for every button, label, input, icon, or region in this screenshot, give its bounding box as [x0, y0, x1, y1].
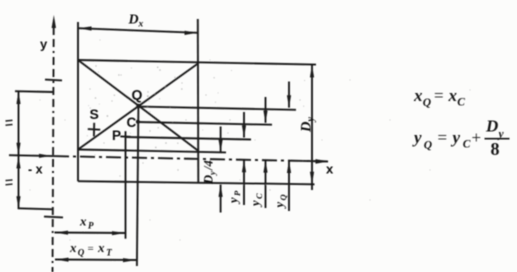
- label D_y rotated: [299, 117, 317, 134]
- svg-text:x: x: [448, 86, 458, 105]
- scan speckle noise: [30, 40, 471, 241]
- x_Q right arrowhead: [123, 258, 136, 262]
- arrowhead down at x-axis from above: [16, 143, 20, 156]
- svg-text:D: D: [202, 175, 216, 185]
- equal mark upper: [6, 120, 13, 125]
- svg-text:y: y: [273, 202, 287, 210]
- dimension y_C upper stem with down arrowhead: [263, 97, 267, 123]
- svg-text:P: P: [232, 190, 242, 196]
- svg-text:Q: Q: [278, 194, 288, 200]
- x-axis right arrowhead: [316, 159, 329, 164]
- svg-text:x: x: [138, 20, 144, 30]
- dimension line x_Q = x_T: [55, 259, 137, 262]
- svg-text:y: y: [227, 197, 241, 205]
- extension line from P to the right: [126, 137, 252, 140]
- D_y top arrowhead: [310, 65, 314, 78]
- label y_Q rotated: [273, 194, 289, 209]
- D_y bottom arrowhead: [310, 172, 314, 185]
- arrowhead up at x-axis from below: [16, 156, 20, 169]
- tick mark upper on y-axis: [45, 79, 62, 82]
- label y_P rotated: [227, 190, 243, 205]
- dimension line x_P: [55, 232, 127, 235]
- dimension y_Q lower stem with up arrowhead: [287, 161, 291, 212]
- svg-text:x: x: [97, 240, 105, 255]
- label x_Q = x_T: [69, 240, 112, 258]
- svg-text:C: C: [457, 97, 465, 109]
- upper hook line of equal-spacing dimension: [15, 90, 53, 93]
- arrowhead up at upper hook: [16, 92, 20, 105]
- tick mark lower on y-axis: [44, 216, 63, 219]
- equal mark lower: [6, 180, 13, 185]
- arrowhead down at lower hook: [16, 196, 20, 209]
- svg-text:=: =: [438, 128, 448, 147]
- y-axis dashed line: [53, 27, 54, 272]
- svg-text:/4: /4: [202, 160, 216, 171]
- dimension y_P upper stem with down arrowhead: [242, 112, 246, 138]
- point P cross marker horizontal: [120, 135, 130, 137]
- svg-text:C: C: [254, 193, 264, 199]
- vertical extension from P down to x_P dimension: [125, 131, 127, 239]
- point S cross marker: [88, 123, 100, 137]
- x-axis solid segment near right arrowhead: [303, 160, 328, 163]
- dimension D_y vertical line: [311, 65, 313, 190]
- svg-text:D: D: [485, 117, 498, 136]
- dimension D_y/4 upper stem with down arrowhead: [219, 127, 223, 153]
- svg-text:P: P: [88, 221, 94, 231]
- extension line from Q to the right: [139, 107, 296, 110]
- svg-text:C: C: [127, 115, 137, 130]
- svg-text:x: x: [69, 240, 77, 255]
- point C marker: [136, 120, 140, 124]
- svg-text:T: T: [106, 248, 112, 258]
- x-axis negative part (solid): [9, 154, 54, 157]
- dimension y_P lower stem with up arrowhead: [242, 160, 246, 205]
- extension line from C to the right: [138, 122, 272, 125]
- svg-text:D: D: [299, 121, 315, 133]
- x_Q left arrowhead: [56, 258, 69, 262]
- label y_C rotated: [249, 193, 265, 208]
- svg-text:y: y: [306, 117, 317, 123]
- label D_y/4 rotated: [202, 160, 218, 185]
- equation y_Q = y_C + D_y/8: [412, 117, 510, 160]
- lower hook line of equal-spacing dimension: [18, 208, 53, 209]
- dimension D_y/4 lower stem with up arrowhead: [219, 184, 223, 212]
- dimension y_C lower stem with up arrowhead: [263, 160, 267, 208]
- equation x_Q = x_C: [413, 86, 465, 109]
- svg-text:y: y: [249, 200, 263, 208]
- dimension line D_x: [78, 28, 198, 33]
- svg-text:y: y: [451, 128, 461, 147]
- x_P left arrowhead: [55, 231, 68, 235]
- svg-text:=: =: [434, 86, 444, 105]
- D_x left arrowhead: [79, 26, 92, 30]
- y-axis arrowhead: [52, 15, 56, 28]
- svg-text:y: y: [40, 37, 48, 52]
- svg-text:Q: Q: [132, 87, 143, 103]
- dimension y_Q upper stem with down arrowhead: [287, 82, 291, 108]
- svg-text:Q: Q: [423, 97, 431, 109]
- x-axis dash-dot centerline: [54, 156, 328, 161]
- rectangle outline bottom edge with extension to D_y dimension: [78, 181, 315, 184]
- svg-text:C: C: [463, 138, 471, 150]
- diagonal from top-right corner: [78, 64, 198, 150]
- D_x right arrowhead: [185, 31, 198, 35]
- svg-text:P: P: [112, 128, 121, 143]
- svg-text:8: 8: [491, 139, 500, 159]
- rectangle outline top edge with extension to D_y dimension: [78, 60, 316, 65]
- svg-text:x: x: [79, 214, 87, 229]
- left equal-spacing dimension line: [18, 92, 20, 210]
- svg-text:S: S: [90, 106, 99, 122]
- svg-text:x: x: [326, 162, 334, 177]
- rectangle outline right edge: [197, 19, 200, 183]
- svg-text:y: y: [207, 171, 217, 176]
- svg-text:y: y: [412, 128, 422, 147]
- point Q marker: [136, 104, 141, 109]
- vertical extension from Q and C down to x_Q dimension: [137, 106, 139, 266]
- x_P right arrowhead: [112, 231, 125, 235]
- svg-text:Q: Q: [78, 248, 85, 258]
- svg-text:D: D: [128, 13, 139, 28]
- svg-text:+: +: [472, 128, 482, 147]
- svg-text:=: =: [88, 243, 94, 255]
- svg-text:x: x: [413, 86, 423, 105]
- diagonal from top-left corner: [78, 60, 198, 151]
- svg-text:- x: - x: [28, 163, 43, 177]
- x-axis arrowhead near origin: [39, 154, 51, 158]
- horizontal line at bottom of diagonals with extension: [78, 150, 226, 153]
- rectangle outline left edge: [77, 22, 79, 181]
- svg-text:Q: Q: [424, 140, 432, 152]
